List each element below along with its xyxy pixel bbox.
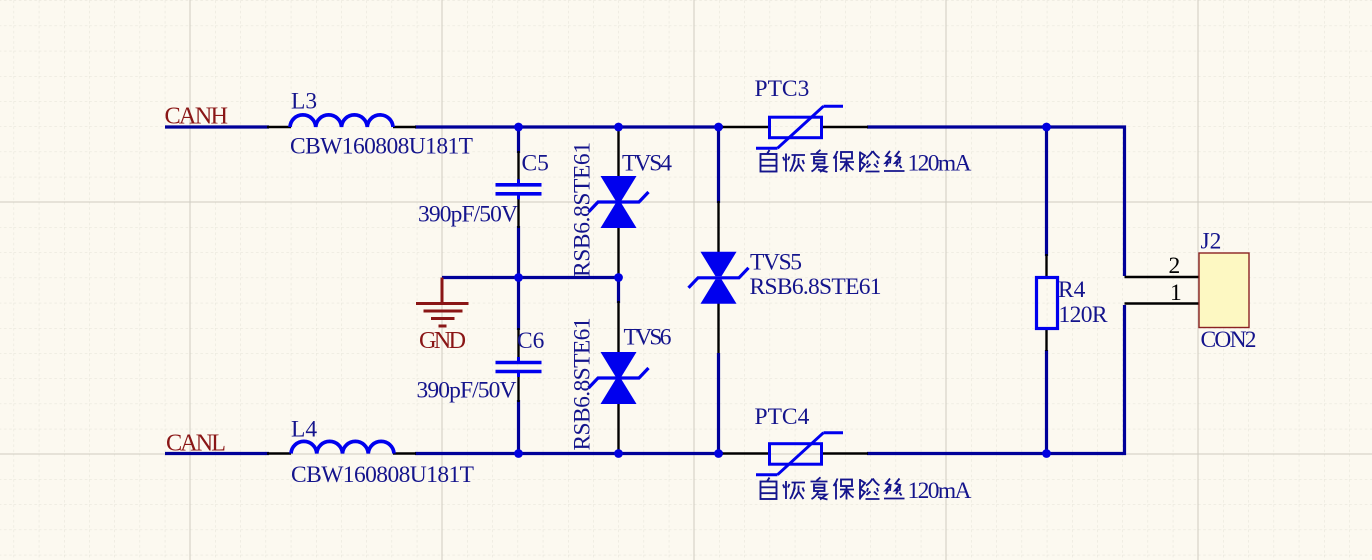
pin L4 right	[393, 452, 416, 454]
wire CANH middle segment (L3 right to PTC3 left)	[415, 125, 723, 128]
svg-text:C6: C6	[517, 328, 545, 354]
svg-text:R4: R4	[1058, 277, 1086, 303]
pin L3 left	[267, 126, 291, 128]
junction CANH/TVS5	[714, 123, 723, 132]
wire CANH left segment	[165, 125, 269, 128]
svg-text:CON2: CON2	[1201, 327, 1257, 353]
pin J2 pin2	[1125, 276, 1200, 278]
svg-text:RSB6.8STE61: RSB6.8STE61	[570, 142, 596, 277]
junction CANL/TVS6	[614, 449, 623, 458]
wire CANL middle segment (L4 right to PTC4 left)	[415, 452, 723, 455]
pin J2 pin1	[1125, 302, 1200, 304]
inductor L3	[290, 115, 393, 127]
resistor R4 body	[1037, 278, 1058, 329]
svg-text:C5: C5	[522, 151, 549, 177]
wire TVS6 top stub	[617, 278, 620, 304]
pin L3 right	[393, 126, 416, 128]
junction dots	[514, 123, 1051, 458]
pin TVS4 top	[617, 128, 619, 178]
pin TVS4 bottom	[617, 226, 619, 277]
svg-text:CANH: CANH	[165, 102, 229, 129]
junction CANH/C5	[514, 123, 523, 132]
svg-text:TVS5: TVS5	[750, 250, 802, 276]
svg-text:GND: GND	[419, 327, 466, 354]
pin C5 bottom	[517, 199, 519, 228]
junction GND/TVS4	[614, 273, 623, 282]
svg-text:L3: L3	[291, 89, 317, 115]
junction CANH/R4	[1042, 123, 1051, 132]
wire middle GND net	[442, 276, 619, 279]
svg-text:RSB6.8STE61: RSB6.8STE61	[570, 318, 596, 451]
pin C6 top	[517, 328, 519, 358]
value Chinese text 自恢复保险丝 (PTC3)	[761, 150, 905, 172]
junction CANL/TVS5	[714, 449, 723, 458]
pin L4 left	[267, 452, 291, 454]
svg-text:390pF/50V: 390pF/50V	[417, 378, 517, 404]
svg-text:1: 1	[1170, 280, 1182, 306]
pin TVS6 top	[617, 301, 619, 354]
pin PTC3 right	[821, 126, 868, 128]
PTC fuse PTC3 body	[756, 106, 843, 148]
wire TVS5 branch bottom	[717, 353, 720, 454]
svg-text:CBW160808U181T: CBW160808U181T	[290, 134, 473, 160]
pin PTC4 right	[821, 452, 868, 454]
svg-text:120mA: 120mA	[908, 151, 972, 177]
svg-text:PTC3: PTC3	[755, 76, 810, 102]
svg-text:120R: 120R	[1059, 302, 1108, 328]
junction CANL/C6	[514, 449, 523, 458]
wire TVS5 branch top	[717, 127, 720, 203]
pin R4 top	[1045, 254, 1047, 278]
svg-text:CANL: CANL	[166, 430, 226, 457]
junction CANL/R4	[1042, 449, 1051, 458]
pin C6 bottom	[517, 375, 519, 402]
svg-text:390pF/50V: 390pF/50V	[418, 202, 518, 228]
TVS diode TVS4	[589, 176, 649, 228]
pin C5 top	[517, 151, 519, 182]
capacitor C5 plates	[496, 179, 542, 199]
svg-text:TVS6: TVS6	[624, 325, 672, 351]
capacitor C6 plates	[496, 357, 542, 377]
svg-text:L4: L4	[291, 417, 317, 443]
pin PTC3 left	[721, 126, 770, 128]
wire C6 branch vertical	[517, 278, 520, 331]
ground symbol GND	[416, 278, 469, 327]
svg-text:CBW160808U181T: CBW160808U181T	[291, 462, 474, 488]
TVS diode TVS5	[689, 252, 749, 304]
junction GND/C5C6	[514, 273, 523, 282]
svg-text:PTC4: PTC4	[755, 404, 810, 430]
svg-text:2: 2	[1169, 253, 1181, 279]
svg-text:J2: J2	[1201, 229, 1222, 255]
pin TVS5 bottom	[717, 302, 719, 353]
svg-text:RSB6.8STE61: RSB6.8STE61	[750, 274, 882, 300]
PTC fuse PTC4 body	[756, 433, 843, 475]
pin PTC4 left	[721, 452, 770, 454]
wire C5 branch vertical	[517, 127, 520, 153]
junction CANH/TVS4	[614, 123, 623, 132]
wire CANL right segment (PTC4 right to corner)	[867, 305, 1125, 454]
svg-text:120mA: 120mA	[908, 478, 972, 504]
wire R4 branch bottom	[1045, 350, 1048, 454]
connector J2 body	[1199, 253, 1249, 328]
pin R4 bottom	[1045, 328, 1047, 351]
pin TVS6 bottom	[617, 402, 619, 453]
pin TVS5 top	[717, 201, 719, 253]
wire CANL left segment	[165, 452, 269, 455]
TVS diode TVS6	[589, 352, 649, 404]
value Chinese text 自恢复保险丝 (PTC4)	[761, 477, 905, 499]
svg-text:TVS4: TVS4	[622, 151, 672, 177]
wire R4 branch top	[1045, 127, 1048, 256]
wire CANH right segment (PTC3 right to corner)	[867, 127, 1125, 276]
inductor L4	[291, 441, 394, 453]
